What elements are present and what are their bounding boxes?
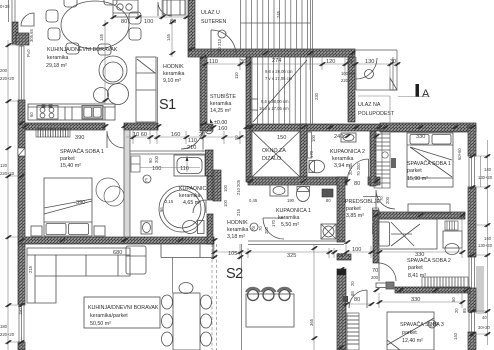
svg-text:100: 100 xyxy=(223,199,228,207)
wall kitchen S1 bottom (left part) xyxy=(25,123,105,130)
svg-text:145: 145 xyxy=(99,33,104,41)
chair S2 r1 xyxy=(201,295,212,309)
svg-text:P=0: P=0 xyxy=(26,49,31,57)
wall right outer seg4 xyxy=(468,332,476,350)
cabinet kup left xyxy=(131,156,140,172)
wall corner hodnik stub xyxy=(213,170,221,201)
stool S2 c xyxy=(278,288,292,301)
window right soba1 xyxy=(469,156,475,187)
wall kitchen S1 bottom (right part) xyxy=(124,123,158,130)
bed soba1 apt2 xyxy=(407,133,453,187)
svg-text:keramika: keramika xyxy=(179,193,201,199)
svg-text:88: 88 xyxy=(350,291,355,296)
armchair S2 xyxy=(126,246,146,274)
kitchen unit top a xyxy=(113,0,138,17)
svg-text:20: 20 xyxy=(199,132,205,138)
svg-text:20: 20 xyxy=(337,253,343,259)
svg-text:9,6 x 28,00 cm: 9,6 x 28,00 cm xyxy=(261,99,289,104)
svg-text:140: 140 xyxy=(484,167,492,172)
desk soba1 apt2 xyxy=(408,204,450,213)
svg-text:50,50 m²: 50,50 m² xyxy=(90,321,111,327)
junction ticks on walls xyxy=(22,124,28,128)
symbol P circle xyxy=(205,126,213,134)
svg-text:SPAVAČA SOBA 1: SPAVAČA SOBA 1 xyxy=(407,160,451,167)
svg-text:190: 190 xyxy=(287,198,295,203)
svg-text:100: 100 xyxy=(152,166,161,172)
svg-text:SUTEREN: SUTEREN xyxy=(201,19,226,25)
svg-text:390: 390 xyxy=(76,200,85,206)
wall soba1 bottom xyxy=(379,212,465,219)
svg-text:220+20: 220+20 xyxy=(0,332,15,337)
svg-text:200: 200 xyxy=(371,275,379,280)
entry diagonal mark xyxy=(390,78,397,90)
wall stair left vertical xyxy=(246,57,251,182)
svg-text:SPAVAČA SOBA 1: SPAVAČA SOBA 1 xyxy=(60,148,104,155)
svg-text:70 200: 70 200 xyxy=(356,163,361,176)
wall predsoblje/soba1 vertical seg2 xyxy=(373,210,379,263)
svg-text:keramika/parket: keramika/parket xyxy=(90,313,128,319)
window left lower xyxy=(19,305,24,342)
dashed corridor lines xyxy=(212,244,217,350)
svg-text:HODNIK: HODNIK xyxy=(163,64,184,70)
bed soba3 xyxy=(387,312,434,350)
dim row S1 y137 xyxy=(126,130,250,152)
wall top-left vertical xyxy=(188,0,195,49)
dim vline x172 xyxy=(171,18,173,57)
terrace grey outside xyxy=(476,266,484,314)
toilet kupaonica S1 xyxy=(183,221,205,234)
svg-text:215: 215 xyxy=(236,208,241,216)
sofa S2 horizontal xyxy=(27,248,130,303)
svg-text:20: 20 xyxy=(350,281,355,286)
door soba1 arc xyxy=(376,190,395,209)
door S1 bedroom arc xyxy=(107,131,124,148)
dim vline right x487 xyxy=(476,140,490,345)
svg-text:parket: parket xyxy=(402,330,417,336)
svg-text:15,40 m²: 15,40 m² xyxy=(60,163,81,169)
elevator shaft okno xyxy=(252,131,300,177)
dim line top y64 xyxy=(200,53,400,90)
svg-text:96: 96 xyxy=(159,207,164,212)
svg-text:130 210: 130 210 xyxy=(217,38,222,54)
svg-text:200: 200 xyxy=(0,68,8,73)
svg-text:keramika: keramika xyxy=(278,215,300,221)
staircase upper flight treads xyxy=(241,0,313,124)
svg-text:10 v x 17,05 cm: 10 v x 17,05 cm xyxy=(259,106,289,111)
door kupaonicaS1 arc xyxy=(193,200,206,213)
window left upper xyxy=(19,46,24,101)
svg-text:0+30: 0+30 xyxy=(0,4,10,9)
shoe cabinet hodnik2 xyxy=(347,313,359,350)
door kitchen arc top xyxy=(158,2,172,16)
svg-text:200: 200 xyxy=(264,226,269,234)
toilet kupaonica1 xyxy=(297,187,310,202)
window left top xyxy=(9,0,16,22)
svg-text:130+20: 130+20 xyxy=(478,243,493,248)
wall right outer seg2 xyxy=(468,187,476,257)
sink kupaonica1 xyxy=(270,185,288,196)
svg-text:20: 20 xyxy=(346,59,352,65)
svg-text:4,65 m²: 4,65 m² xyxy=(183,200,201,206)
svg-text:KUPAONICA 2: KUPAONICA 2 xyxy=(330,149,365,155)
island S2 xyxy=(246,294,294,327)
dim row y252 xyxy=(214,219,462,258)
svg-text:220+20: 220+20 xyxy=(0,171,15,176)
svg-text:274: 274 xyxy=(272,58,281,64)
svg-text:P: P xyxy=(207,128,210,133)
wall top horizontal xyxy=(188,49,355,57)
wall stair right vertical xyxy=(348,57,355,122)
chair S2 l2 xyxy=(162,314,173,328)
svg-text:40: 40 xyxy=(482,315,487,320)
wall vertical kitchen/stubiste xyxy=(200,57,207,124)
svg-text:S1: S1 xyxy=(159,97,176,113)
svg-text:parket: parket xyxy=(346,206,361,212)
svg-text:105: 105 xyxy=(228,251,237,257)
symbol circle kup1 xyxy=(250,223,258,231)
wardrobe hanger soba2/3 xyxy=(422,277,468,288)
shower circle kupaonica S1 xyxy=(159,186,205,232)
toilet kupaonica2 xyxy=(309,160,325,173)
svg-text:110: 110 xyxy=(234,72,239,79)
svg-text:parket: parket xyxy=(407,168,422,174)
sink kupaonica S1 xyxy=(141,221,152,234)
svg-text:50: 50 xyxy=(451,297,456,302)
wall predsoblje/soba1 vertical seg1 xyxy=(370,131,376,186)
svg-text:80: 80 xyxy=(326,198,331,203)
svg-text:keramika: keramika xyxy=(332,156,354,162)
wall soba2/soba3 xyxy=(395,287,470,293)
table edge line S2 xyxy=(172,258,174,294)
door frame block hodnik2 xyxy=(343,296,348,302)
dim line kitchen top y17 xyxy=(113,0,188,17)
svg-text:7 v x 17,05 cm: 7 v x 17,05 cm xyxy=(265,76,293,81)
svg-text:KUHINJA/DNEVNI BORAVAK: KUHINJA/DNEVNI BORAVAK xyxy=(88,305,159,311)
door soba2 arc xyxy=(379,263,396,281)
svg-text:60: 60 xyxy=(29,112,34,117)
svg-text:36: 36 xyxy=(240,59,246,65)
svg-text:parket: parket xyxy=(408,265,423,271)
svg-text:5,50 m²: 5,50 m² xyxy=(281,222,299,228)
stool S2 a xyxy=(246,288,260,301)
svg-text:KUHINJA/DNEVNI BORAVAK: KUHINJA/DNEVNI BORAVAK xyxy=(47,47,118,53)
svg-text:70: 70 xyxy=(372,268,378,274)
dim line left vertical xyxy=(8,40,25,350)
symbol circle E xyxy=(428,320,436,328)
chair S1 g xyxy=(66,43,79,54)
wall left top pier xyxy=(12,22,18,44)
sink kupaonica2 xyxy=(341,133,356,142)
thin wall hodnik/kitchen S1 xyxy=(157,57,159,123)
svg-text:9,6 x 28,00 cm: 9,6 x 28,00 cm xyxy=(265,69,293,74)
window right soba2 xyxy=(469,257,475,288)
wall gap symbol left xyxy=(18,148,25,156)
washing machine xyxy=(321,224,336,239)
ticks lobby xyxy=(210,125,216,129)
thin wall kupaonica S1 top xyxy=(130,151,207,154)
chair S1 f xyxy=(129,28,141,40)
dim row y302 xyxy=(346,293,462,308)
kitchen counter S1 xyxy=(28,104,115,120)
svg-text:170: 170 xyxy=(271,219,276,227)
wall block below kupaonica1 xyxy=(337,254,351,260)
stair direction line xyxy=(253,60,307,122)
chair S2 l3 xyxy=(162,332,173,346)
svg-text:100: 100 xyxy=(352,247,361,253)
svg-text:110: 110 xyxy=(180,166,189,172)
svg-text:210 205: 210 205 xyxy=(236,179,241,195)
svg-text:14,25 m²: 14,25 m² xyxy=(210,108,231,114)
svg-text:365: 365 xyxy=(309,318,314,326)
stove S1 xyxy=(37,105,58,119)
wall mid horizontal xyxy=(200,124,213,131)
svg-text:2,15: 2,15 xyxy=(165,199,174,204)
svg-text:±0,00: ±0,00 xyxy=(214,120,227,126)
svg-text:215: 215 xyxy=(28,265,33,273)
label kuhinja S2 box xyxy=(84,297,160,328)
level marker xyxy=(210,119,213,123)
svg-text:145: 145 xyxy=(166,33,171,41)
svg-text:DIZALO: DIZALO xyxy=(262,156,281,162)
door hodnik-stubiste arc xyxy=(181,127,203,149)
dim vline x105 xyxy=(104,20,106,104)
svg-text:50: 50 xyxy=(234,135,239,140)
section marker A xyxy=(416,84,420,97)
wall left bottom block xyxy=(18,342,25,350)
svg-text:180: 180 xyxy=(18,307,23,315)
vestibule thin walls entry xyxy=(355,50,397,90)
window right soba3 xyxy=(469,312,475,332)
door stubiste-suteren arc xyxy=(211,30,236,55)
svg-text:parket: parket xyxy=(60,156,75,162)
svg-text:8,41 m²: 8,41 m² xyxy=(408,273,426,279)
staircase lower flight treads xyxy=(252,57,306,124)
svg-text:S2: S2 xyxy=(226,266,243,282)
thin wall kupaonica1 bottom xyxy=(248,241,344,245)
svg-text:3,94 m²: 3,94 m² xyxy=(334,163,352,169)
bathtub kupaonica S1 xyxy=(174,155,205,176)
svg-text:85: 85 xyxy=(462,308,467,313)
wall kupaonicaS1 right top seg xyxy=(206,150,214,176)
chair S1 e xyxy=(129,12,141,24)
svg-text:200: 200 xyxy=(154,155,159,163)
svg-text:keramika: keramika xyxy=(210,101,232,107)
svg-text:240: 240 xyxy=(334,134,343,140)
svg-text:100: 100 xyxy=(311,134,316,142)
wall mid horizontal right part xyxy=(246,124,380,131)
svg-text:140: 140 xyxy=(484,236,492,241)
svg-text:30: 30 xyxy=(390,59,396,65)
stool S2 b xyxy=(262,288,276,301)
wall right outer seg3 xyxy=(468,288,476,312)
chair S1 h xyxy=(98,44,111,55)
svg-text:HODNIK: HODNIK xyxy=(227,220,248,226)
cabinet kupaonica1 dark xyxy=(322,189,333,197)
door entry top arc xyxy=(356,58,377,79)
svg-text:120: 120 xyxy=(326,59,335,65)
chair S1 a xyxy=(64,0,77,7)
svg-text:100: 100 xyxy=(144,19,153,25)
svg-text:3,85 m²: 3,85 m² xyxy=(346,213,364,219)
cabinet S1 hodnik xyxy=(136,57,156,122)
desk soba2 xyxy=(443,231,462,255)
chair S1 d xyxy=(48,28,60,40)
svg-text:80: 80 xyxy=(354,181,360,187)
svg-text:220: 220 xyxy=(341,78,349,83)
svg-text:200: 200 xyxy=(385,196,390,204)
wall kupaonica2 right vertical xyxy=(337,177,345,242)
svg-text:0,45: 0,45 xyxy=(249,198,258,203)
svg-text:160: 160 xyxy=(218,126,227,132)
nightstand S1 a xyxy=(31,226,42,236)
svg-text:180: 180 xyxy=(0,324,8,329)
svg-text:230: 230 xyxy=(314,92,319,100)
svg-text:ULAZ U: ULAZ U xyxy=(201,10,220,16)
radiator soba2 xyxy=(445,221,458,230)
svg-text:680: 680 xyxy=(113,250,122,256)
svg-text:325: 325 xyxy=(287,253,296,259)
nightstand S1 b xyxy=(94,226,105,236)
bed S1 xyxy=(44,178,92,236)
svg-text:STUBIŠTE: STUBIŠTE xyxy=(210,93,236,100)
kitchen unit top b xyxy=(163,0,185,15)
corridor thin line xyxy=(241,244,243,350)
svg-text:29,18 m²: 29,18 m² xyxy=(46,63,67,69)
svg-text:keramika: keramika xyxy=(47,55,69,61)
svg-text:30+20: 30+20 xyxy=(478,325,490,330)
dim vline x314 xyxy=(313,244,315,350)
dining table S1 xyxy=(61,1,129,49)
kitchen counter S2 xyxy=(161,245,213,258)
svg-text:9,10 m²: 9,10 m² xyxy=(163,78,181,84)
door soba3 arc xyxy=(349,290,367,308)
svg-text:12,40 m²: 12,40 m² xyxy=(402,338,423,344)
sink S1 xyxy=(82,106,103,120)
svg-text:100+50: 100+50 xyxy=(341,71,356,76)
svg-text:A: A xyxy=(422,88,430,100)
svg-text:SPAVAČA SOBA 2: SPAVAČA SOBA 2 xyxy=(407,257,451,264)
svg-text:KUPAONICA: KUPAONICA xyxy=(179,186,210,192)
svg-text:150: 150 xyxy=(277,135,286,141)
chair S1 c xyxy=(46,10,58,22)
svg-text:20: 20 xyxy=(454,308,459,313)
svg-text:220+20: 220+20 xyxy=(0,76,15,81)
svg-text:140: 140 xyxy=(453,332,458,340)
svg-text:245: 245 xyxy=(276,10,281,18)
wall left top pier foot xyxy=(16,33,29,45)
thin wall S1 bedroom right xyxy=(124,130,130,237)
svg-text:60+60: 60+60 xyxy=(457,148,462,160)
svg-text:110: 110 xyxy=(209,59,218,65)
wall right outer seg1 xyxy=(468,126,476,156)
svg-text:330: 330 xyxy=(411,297,420,303)
svg-text:120: 120 xyxy=(0,163,8,168)
wall top right outer xyxy=(380,123,476,132)
svg-text:110: 110 xyxy=(188,138,197,144)
wall kupaonicaS1 right upper xyxy=(207,176,213,200)
svg-text:70: 70 xyxy=(258,226,263,231)
wall left lower xyxy=(18,244,25,305)
stair arrows small xyxy=(250,99,258,110)
svg-text:10 60: 10 60 xyxy=(133,132,147,138)
wall hodnik2 left vertical xyxy=(337,269,346,350)
chair S2 r3 xyxy=(201,332,212,346)
wardrobe hanger soba1 xyxy=(374,130,390,188)
radiator soba1 apt2 xyxy=(391,158,396,168)
chair S2 top xyxy=(179,283,193,294)
svg-text:390: 390 xyxy=(75,135,84,141)
svg-text:330: 330 xyxy=(416,134,425,140)
armchair round S1 xyxy=(94,56,129,105)
predsoblje shelf xyxy=(363,196,380,198)
circle E kup xyxy=(143,175,151,183)
svg-text:ULAZ NA: ULAZ NA xyxy=(358,102,381,108)
svg-text:keramika: keramika xyxy=(163,71,185,77)
svg-text:PREDSOBLJE: PREDSOBLJE xyxy=(345,199,380,205)
svg-text:90: 90 xyxy=(148,158,153,163)
svg-text:E: E xyxy=(145,178,148,183)
chair S1 corner xyxy=(21,13,34,26)
svg-text:E: E xyxy=(430,323,433,328)
chair S2 l1 xyxy=(162,295,173,309)
door apt2 entry arc xyxy=(348,159,369,180)
svg-text:15,90 m²: 15,90 m² xyxy=(407,176,428,182)
svg-text:keramika: keramika xyxy=(227,227,249,233)
svg-text:70: 70 xyxy=(434,322,439,327)
dining table S2 xyxy=(173,293,200,350)
chair S2 r2 xyxy=(201,314,212,328)
svg-text:80: 80 xyxy=(121,19,127,25)
svg-text:80: 80 xyxy=(354,297,360,303)
svg-text:OKNO ZA: OKNO ZA xyxy=(262,148,286,154)
bed soba2 xyxy=(377,219,437,249)
plant circles S1 bedroom xyxy=(96,178,124,206)
svg-text:POLUPODEST: POLUPODEST xyxy=(358,111,395,117)
svg-text:305,65: 305,65 xyxy=(29,29,34,42)
door symbol circle xyxy=(218,30,226,38)
radiator door soba2 xyxy=(376,282,394,289)
wall divide S1/S2 horizontal xyxy=(18,237,214,244)
svg-text:130: 130 xyxy=(365,59,374,65)
svg-text:210: 210 xyxy=(187,145,196,151)
svg-text:3,18 m²: 3,18 m² xyxy=(227,234,245,240)
wall kupaonicaS1 right lower xyxy=(207,214,213,244)
radiator S1 bedroom xyxy=(36,128,70,137)
svg-text:130+20: 130+20 xyxy=(478,175,493,180)
fixture strip kup2 xyxy=(308,132,312,158)
svg-text:KUPAONICA 1: KUPAONICA 1 xyxy=(276,208,311,214)
svg-text:170: 170 xyxy=(309,150,314,158)
door kupaonica1 arc xyxy=(263,218,284,239)
entry symbol circle xyxy=(365,70,374,79)
wall left main xyxy=(18,100,25,237)
svg-text:100: 100 xyxy=(223,184,228,192)
wall shaft right vertical xyxy=(300,124,307,182)
wall shaft bottom / kupaonica1 top xyxy=(248,177,347,185)
chair S1 b xyxy=(104,0,117,5)
svg-text:160: 160 xyxy=(171,132,180,138)
